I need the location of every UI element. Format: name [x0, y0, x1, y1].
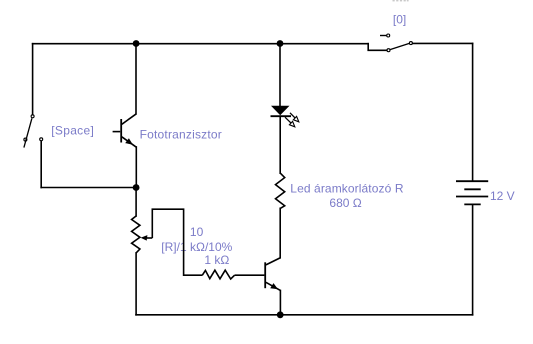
svg-text:Fototranzisztor: Fototranzisztor [140, 128, 222, 142]
label [Space] for push switch [51, 124, 94, 138]
svg-text:12 V: 12 V [490, 189, 515, 203]
wire LED cathode to resistor 680 [279, 116, 281, 173]
wire transistor emitter down to bottom junction [279, 291, 281, 315]
value label 10 (potentiometer) [190, 225, 204, 239]
resistor 1 kΩ [202, 270, 264, 279]
wire junction A to potentiometer [135, 191, 137, 216]
wire phototransistor collector from top junction [135, 43, 137, 114]
junction top rail / LED branch [277, 40, 284, 47]
potentiometer wiper arrow [141, 235, 148, 241]
junction A (middle wire / pot) [133, 184, 140, 191]
switch [0] (SPDT, top right) [380, 34, 412, 52]
wire middle horizontal to junction A [41, 187, 136, 189]
wire LED branch from top junction [279, 43, 281, 105]
junction top rail / phototransistor [133, 40, 140, 47]
transistor Q2 (NPN) [265, 258, 280, 291]
wire resistor 1k to transistor base [235, 274, 265, 276]
svg-text:1 kΩ: 1 kΩ [204, 253, 229, 267]
wire resistor 680 to transistor collector [279, 208, 281, 257]
wire bottom rail [136, 314, 473, 316]
junction bottom rail / emitter [277, 311, 284, 318]
wire right side lower (battery to bottom) [472, 205, 474, 314]
svg-text:10: 10 [190, 225, 204, 239]
wire top left (node top rail) [33, 43, 369, 45]
value label 680 Ω [329, 196, 361, 210]
svg-text:680 Ω: 680 Ω [329, 196, 361, 210]
wire left branch down to push switch [32, 44, 34, 115]
svg-text:kΩ/10%: kΩ/10% [190, 240, 233, 254]
svg-text:[0]: [0] [393, 12, 406, 26]
resistor 680 Ω (LED current limiter) [276, 173, 285, 208]
LED D1 [271, 106, 299, 127]
value label 1 kΩ (resistor) [204, 253, 229, 267]
wire top rail jog into switch [368, 44, 387, 51]
potentiometer 10 kΩ/10% [132, 216, 153, 253]
wire from switch to top-right corner [413, 42, 473, 44]
phototransistor Q1 [113, 114, 137, 147]
svg-text:[Space]: [Space] [51, 124, 94, 138]
wire wiper loop [152, 209, 202, 275]
wire phototransistor emitter to junction A [135, 147, 137, 184]
wire potentiometer bottom to bottom rail [135, 253, 137, 315]
battery 12 V [456, 181, 488, 204]
svg-text:Led áramkorlátozó R: Led áramkorlátozó R [290, 182, 404, 196]
label [0] for switch [393, 12, 406, 26]
push switch [Space] [24, 115, 43, 148]
wire right side upper (to battery) [472, 43, 474, 180]
value label kΩ/10% (potentiometer) [190, 240, 233, 254]
label Led áramkorlátozó R [290, 182, 404, 196]
label Fototranzisztor [140, 128, 222, 142]
wire below push switch [40, 141, 42, 187]
label [R]/1 (potentiometer hotkey) [161, 240, 187, 254]
top edge faint marks [393, 0, 409, 1]
value label 12 V (battery) [490, 189, 515, 203]
